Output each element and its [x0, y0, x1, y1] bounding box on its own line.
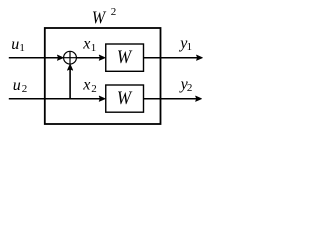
arrowhead u1 into summing junction	[57, 55, 63, 60]
summing junction plus vertical line	[69, 51, 71, 64]
arrowhead x1 into upper W block	[99, 55, 105, 60]
svg-text:1: 1	[91, 42, 97, 54]
arrowhead y1 output	[197, 55, 203, 60]
summing junction plus horizontal line	[64, 57, 77, 59]
svg-text:1: 1	[187, 41, 193, 53]
svg-text:u: u	[13, 77, 21, 94]
svg-text:x: x	[82, 36, 90, 53]
block W (lower)	[106, 85, 144, 112]
svg-text:2: 2	[111, 6, 117, 18]
arrowhead y2 output	[196, 96, 202, 101]
wire u2 to lower W block	[9, 98, 101, 100]
wire y2 output from lower W block	[144, 98, 197, 100]
svg-text:W: W	[117, 48, 133, 68]
wire y1 output from upper W block	[144, 57, 198, 59]
summing junction circle	[64, 51, 77, 64]
wire branch from u2 up to summing junction	[69, 69, 71, 99]
svg-text:W: W	[117, 89, 133, 109]
svg-text:2: 2	[187, 82, 193, 94]
wire u1 to summing junction	[9, 57, 59, 59]
svg-text:W: W	[92, 8, 107, 28]
svg-text:2: 2	[22, 83, 28, 95]
svg-text:2: 2	[91, 83, 97, 95]
arrowhead branch into summing junction bottom	[68, 64, 73, 70]
svg-text:1: 1	[19, 42, 25, 54]
outer system box W^2	[45, 28, 161, 124]
block W (upper)	[106, 44, 144, 71]
arrowhead u2/x2 into lower W block	[99, 96, 105, 101]
svg-text:x: x	[82, 77, 90, 94]
wire x1 from summing junction to upper W block	[77, 57, 101, 59]
svg-text:u: u	[11, 36, 19, 53]
